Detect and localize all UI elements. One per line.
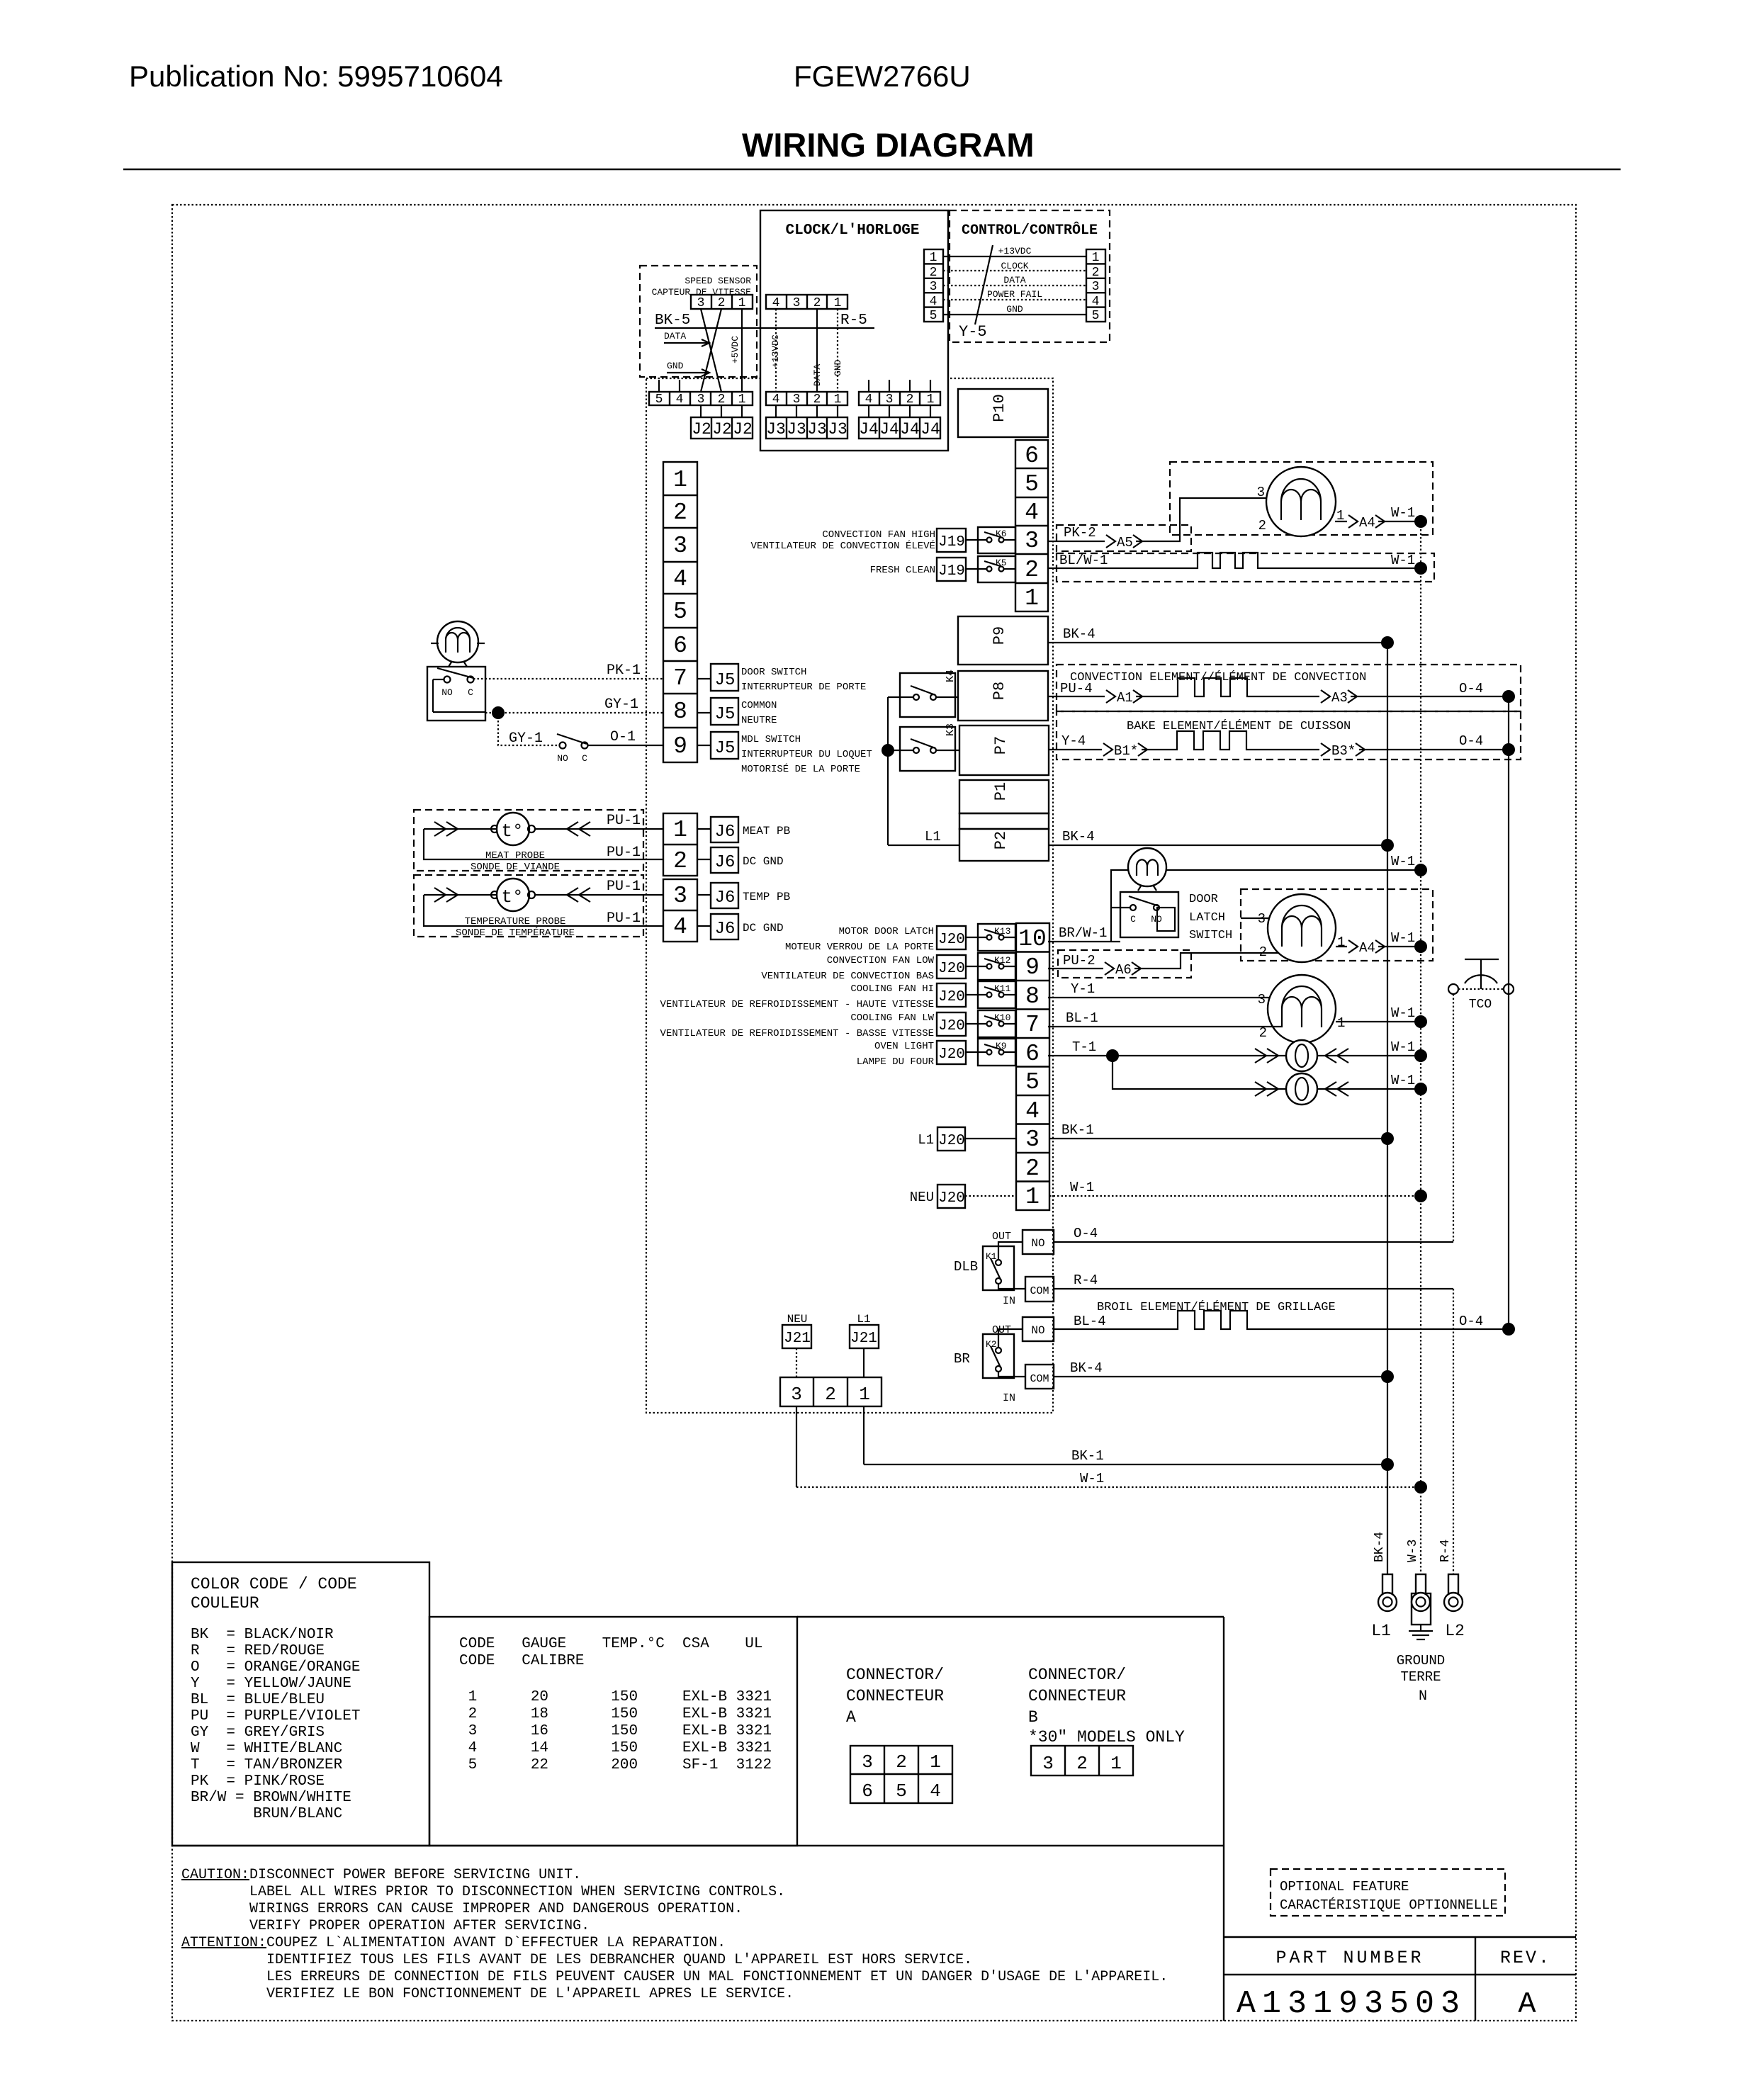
bundle slash Y-5 [975, 245, 993, 324]
label CONNECTOR B [1028, 1666, 1185, 1746]
svg-text:O = ORANGE/ORANGE: O = ORANGE/ORANGE [191, 1659, 360, 1676]
junction O bus broil [1502, 1323, 1515, 1336]
svg-text:7: 7 [673, 665, 687, 691]
svg-text:+5VDC: +5VDC [730, 336, 740, 363]
wire cooling fan pin1 to W bus [1336, 1021, 1421, 1022]
svg-text:K3: K3 [945, 723, 957, 736]
right pin column 6-1 [1015, 440, 1048, 611]
svg-text:CODE GAUGE TEMP.°C CSA: CODE GAUGE TEMP.°C CSA UL [459, 1636, 762, 1652]
svg-text:PU-1: PU-1 [607, 845, 641, 861]
svg-text:J3: J3 [828, 420, 847, 439]
svg-text:3: 3 [1025, 1127, 1040, 1153]
svg-text:PU-2: PU-2 [1063, 953, 1096, 969]
svg-text:BK-1: BK-1 [1071, 1448, 1104, 1464]
svg-text:2: 2 [673, 499, 687, 526]
motor cooling fan [1258, 975, 1346, 1043]
svg-text:3: 3 [697, 393, 705, 407]
junction BK bus BK-1 [1381, 1132, 1394, 1145]
J2 connector boxes [691, 405, 753, 439]
svg-text:L2: L2 [1445, 1622, 1465, 1640]
svg-text:COOLING FAN LW: COOLING FAN LW [850, 1012, 934, 1024]
svg-text:2: 2 [1259, 944, 1267, 960]
wire speed sensor cross 2 [701, 309, 721, 392]
svg-text:IDENTIFIEZ TOUS LES FILS AVANT: IDENTIFIEZ TOUS LES FILS AVANT DE LES DE… [266, 1952, 972, 1968]
svg-text:4: 4 [772, 296, 780, 310]
svg-text:BK-4: BK-4 [1062, 829, 1095, 845]
svg-text:L1: L1 [857, 1313, 870, 1326]
connector strip J2 row [649, 392, 753, 407]
svg-text:COM: COM [1030, 1285, 1049, 1297]
svg-text:4: 4 [676, 393, 684, 407]
svg-text:J20: J20 [938, 1190, 965, 1207]
J21 box L1 [850, 1325, 879, 1377]
wire DATA [943, 285, 1086, 286]
P1-P2 spacer [959, 813, 1049, 829]
svg-text:WIRING DIAGRAM: WIRING DIAGRAM [742, 126, 1035, 164]
svg-text:+13VDC: +13VDC [998, 246, 1032, 256]
junction W bus door latch [1414, 864, 1427, 876]
svg-text:1: 1 [1110, 1753, 1122, 1774]
svg-text:4: 4 [1025, 1098, 1040, 1124]
svg-text:3: 3 [793, 296, 801, 310]
svg-text:SPEED SENSOR: SPEED SENSOR [685, 276, 751, 286]
svg-text:LES ERREURS DE CONNECTION DE F: LES ERREURS DE CONNECTION DE FILS PEUVEN… [266, 1969, 1168, 1985]
wire speed sensor straight [741, 309, 743, 392]
NO box BR [1023, 1317, 1054, 1341]
svg-text:J2: J2 [733, 420, 753, 439]
svg-text:3: 3 [1092, 280, 1100, 294]
svg-text:1: 1 [930, 1751, 941, 1773]
svg-text:BL = BLUE/BLEU: BL = BLUE/BLEU [191, 1692, 325, 1708]
svg-text:3: 3 [673, 883, 687, 909]
svg-text:1: 1 [1025, 1184, 1040, 1210]
svg-text:1: 1 [834, 393, 842, 407]
svg-text:N: N [1419, 1688, 1427, 1705]
svg-text:3: 3 [1025, 528, 1039, 554]
J6 box pin4 [697, 914, 738, 939]
svg-text:NO: NO [1031, 1237, 1044, 1250]
svg-text:A: A [846, 1708, 856, 1727]
label CONNECTOR A [846, 1666, 944, 1727]
dashed enclosure PK-2 [1057, 525, 1191, 551]
svg-text:BK = BLACK/NOIR: BK = BLACK/NOIR [191, 1627, 334, 1643]
svg-text:1: 1 [927, 393, 935, 407]
svg-text:BK-1: BK-1 [1061, 1122, 1094, 1138]
control box [950, 210, 1110, 342]
svg-text:OUT: OUT [992, 1231, 1011, 1243]
svg-text:1: 1 [1025, 585, 1039, 611]
J19 box K6 [937, 529, 987, 552]
svg-text:VERIFIEZ LE BON FONCTIONNEMENT: VERIFIEZ LE BON FONCTIONNEMENT DE L'APPA… [266, 1986, 794, 2002]
svg-text:+13VDC: +13VDC [770, 334, 781, 368]
COM box BR [1025, 1365, 1054, 1389]
svg-text:W-1: W-1 [1080, 1471, 1104, 1486]
svg-text:SWITCH: SWITCH [1189, 929, 1232, 942]
svg-text:J6: J6 [715, 920, 736, 939]
title rule [123, 169, 1621, 170]
P9 connector [958, 616, 1048, 665]
relay K12 [978, 953, 1016, 980]
svg-text:IN: IN [1003, 1295, 1015, 1307]
svg-text:W-1: W-1 [1391, 854, 1415, 869]
dashed enclosure convection fan low [1241, 889, 1433, 961]
P7 connector [959, 726, 1049, 775]
svg-text:MEAT PB: MEAT PB [743, 825, 790, 837]
svg-text:2: 2 [1259, 1025, 1267, 1041]
caution area top line [172, 1845, 1224, 1846]
svg-text:A4: A4 [1359, 515, 1375, 531]
wire A4 low pin3 stub [1241, 918, 1270, 919]
svg-text:J2: J2 [692, 420, 711, 439]
svg-text:2: 2 [718, 296, 726, 310]
svg-text:CONNECTOR/: CONNECTOR/ [1028, 1666, 1126, 1684]
svg-text:4: 4 [1025, 499, 1039, 526]
junction O bus convection [1502, 690, 1515, 703]
svg-text:W-1: W-1 [1391, 1073, 1415, 1088]
svg-text:DATA: DATA [812, 364, 823, 386]
svg-text:5 22 200 SF-1: 5 22 200 SF-1 3122 [459, 1757, 772, 1773]
svg-text:1: 1 [1337, 935, 1345, 950]
svg-text:CARACTÉRISTIQUE OPTIONNELLE: CARACTÉRISTIQUE OPTIONNELLE [1280, 1897, 1498, 1913]
svg-text:4: 4 [930, 1780, 941, 1802]
svg-text:J3: J3 [766, 420, 786, 439]
svg-text:2 18 150 EXL-B: 2 18 150 EXL-B 3321 [459, 1706, 772, 1722]
svg-text:CONVECTION FAN HIGH: CONVECTION FAN HIGH [822, 529, 935, 541]
relay K5 [978, 556, 1015, 582]
wire clock GND [837, 309, 838, 392]
wire gauge table box [429, 1617, 797, 1846]
svg-text:PU-1: PU-1 [607, 879, 641, 895]
wire O-4 DLB NO [1054, 1241, 1453, 1243]
svg-text:TEMP PB: TEMP PB [743, 891, 790, 903]
svg-text:REV.: REV. [1500, 1948, 1551, 1968]
wire BK-4 BR COM [1054, 1376, 1387, 1377]
P2 connector [959, 829, 1049, 861]
svg-text:BL-4: BL-4 [1074, 1314, 1106, 1329]
svg-text:2: 2 [1258, 518, 1266, 534]
svg-text:J2: J2 [712, 420, 732, 439]
svg-text:TERRE: TERRE [1400, 1669, 1441, 1685]
svg-text:7: 7 [1025, 1012, 1040, 1038]
bus R-4 upper segment [1453, 994, 1454, 1242]
relay K4 [888, 670, 958, 717]
svg-text:COULEUR: COULEUR [191, 1594, 259, 1613]
svg-text:DOOR SWITCH: DOOR SWITCH [741, 667, 806, 678]
wire W-1 pin1 row [1049, 1195, 1421, 1197]
svg-text:8: 8 [673, 699, 687, 725]
svg-text:3: 3 [673, 533, 687, 559]
control right pin column [1086, 249, 1105, 323]
junction T-1 [1106, 1049, 1119, 1062]
svg-text:GND: GND [1006, 304, 1023, 315]
svg-text:FRESH CLEAN: FRESH CLEAN [870, 565, 935, 576]
junction W bus A4 low [1414, 940, 1427, 953]
wire lamp2 row [1113, 1056, 1421, 1089]
svg-text:P1: P1 [992, 782, 1010, 801]
svg-text:2: 2 [813, 296, 821, 310]
svg-text:GND: GND [667, 361, 684, 371]
svg-text:NEU: NEU [910, 1190, 934, 1205]
svg-text:J20: J20 [938, 1046, 965, 1063]
svg-text:O-1: O-1 [610, 729, 636, 745]
svg-text:VENTILATEUR DE REFROIDISSEMENT: VENTILATEUR DE REFROIDISSEMENT - BASSE V… [660, 1028, 934, 1039]
P10 connector box [958, 389, 1048, 437]
junction W bus BL/W-1 [1414, 562, 1427, 575]
svg-text:6: 6 [673, 633, 687, 659]
wire PK-1 door switch to pin7 [473, 678, 663, 679]
svg-text:PU = PURPLE/VIOLET: PU = PURPLE/VIOLET [191, 1708, 360, 1724]
arrow A5 [1105, 533, 1142, 551]
svg-text:NEU: NEU [787, 1313, 808, 1326]
svg-text:BL/W-1: BL/W-1 [1059, 553, 1108, 568]
svg-text:T = TAN/BRONZER: T = TAN/BRONZER [191, 1757, 343, 1773]
J20 box NEU [937, 1185, 1016, 1208]
svg-text:4 14 150 EXL-B: 4 14 150 EXL-B 3321 [459, 1740, 772, 1756]
P1 connector [959, 780, 1049, 813]
svg-text:6: 6 [1025, 443, 1039, 469]
svg-text:6: 6 [862, 1780, 873, 1802]
svg-text:5: 5 [673, 599, 687, 625]
svg-text:NO: NO [441, 687, 453, 698]
J3 connector boxes [766, 405, 847, 439]
J6 box pin3 [697, 883, 738, 908]
svg-text:DC GND: DC GND [743, 922, 784, 935]
svg-text:PU-1: PU-1 [607, 910, 641, 927]
svg-text:2: 2 [930, 266, 937, 280]
junction W bus A4 top [1414, 515, 1427, 528]
svg-text:C: C [1130, 914, 1136, 925]
svg-text:SONDE DE VIANDE: SONDE DE VIANDE [471, 862, 560, 873]
junction GY-1 [492, 706, 505, 719]
svg-text:COLOR CODE / CODE: COLOR CODE / CODE [191, 1575, 357, 1593]
svg-text:VENTILATEUR DE REFROIDISSEMENT: VENTILATEUR DE REFROIDISSEMENT - HAUTE V… [660, 999, 934, 1010]
svg-text:CLOCK: CLOCK [1001, 261, 1028, 271]
svg-text:DATA: DATA [1003, 275, 1025, 286]
svg-text:J4: J4 [900, 420, 920, 439]
wire O-1 to pin9 [588, 745, 663, 746]
wire Y-1 row [1048, 997, 1275, 998]
svg-text:J3: J3 [807, 420, 827, 439]
svg-text:R = RED/ROUGE: R = RED/ROUGE [191, 1643, 325, 1659]
svg-text:4: 4 [772, 393, 780, 407]
svg-text:O-4: O-4 [1074, 1226, 1098, 1241]
svg-text:BK-4: BK-4 [1373, 1532, 1387, 1562]
meat probe circuit [424, 813, 663, 859]
svg-text:PU-4: PU-4 [1060, 681, 1093, 696]
wire motor A4 top pin1 to W bus [1335, 521, 1421, 522]
J5 box pin7 [697, 664, 738, 691]
relay K2 [983, 1329, 1025, 1378]
svg-text:5: 5 [1025, 1069, 1040, 1095]
dashed enclosure convection fan high motor [1170, 462, 1433, 535]
wire junction down [498, 713, 559, 745]
svg-text:O-4: O-4 [1459, 733, 1483, 749]
svg-text:J5: J5 [715, 705, 736, 724]
arrow A1 [1105, 688, 1142, 706]
svg-text:A13193503: A13193503 [1237, 1986, 1466, 2022]
temperature probe box [414, 875, 643, 939]
lower right pin column 10-1 [1016, 923, 1049, 1210]
svg-text:3: 3 [930, 280, 937, 294]
svg-text:CONVECTION FAN LOW: CONVECTION FAN LOW [827, 955, 935, 966]
svg-text:COOLING FAN HI: COOLING FAN HI [850, 983, 934, 995]
svg-text:P9: P9 [991, 626, 1008, 645]
svg-text:T-1: T-1 [1072, 1039, 1096, 1055]
svg-text:W-1: W-1 [1391, 930, 1415, 946]
svg-text:1: 1 [673, 817, 687, 843]
svg-text:4: 4 [1092, 295, 1100, 309]
terminal R-4 [1444, 1574, 1463, 1611]
svg-text:CLOCK/L'HORLOGE: CLOCK/L'HORLOGE [785, 222, 919, 239]
svg-text:5: 5 [1025, 471, 1039, 497]
speed sensor box [640, 266, 757, 377]
svg-text:NEUTRE: NEUTRE [741, 715, 777, 726]
svg-text:DATA: DATA [664, 331, 686, 341]
J6 box pin2 [697, 847, 738, 873]
connector B strip [1031, 1746, 1133, 1776]
svg-text:FGEW2766U: FGEW2766U [794, 60, 971, 93]
svg-text:1: 1 [834, 296, 842, 310]
clock box [760, 210, 948, 451]
door latch switch box right [1111, 892, 1178, 937]
J20 box K10 [937, 1012, 987, 1036]
clock pin strip 4321 [766, 295, 847, 310]
svg-text:2: 2 [1025, 557, 1039, 583]
relay K9 [978, 1039, 1016, 1066]
junction W bus cooling [1414, 1015, 1427, 1028]
J20 box K13 [937, 926, 987, 949]
svg-text:9: 9 [673, 733, 687, 760]
svg-text:INTERRUPTEUR DE PORTE: INTERRUPTEUR DE PORTE [741, 682, 866, 693]
svg-text:WIRINGS ERRORS CAN CAUSE IMPRO: WIRINGS ERRORS CAN CAUSE IMPROPER AND DA… [249, 1901, 743, 1917]
wire BL/W-1 row with element [1048, 553, 1421, 568]
svg-text:10: 10 [1018, 926, 1047, 952]
svg-text:B1*: B1* [1114, 743, 1138, 759]
wire stubs J4 to board edge [868, 380, 869, 392]
wire BK-1 bottom [864, 1464, 1387, 1465]
svg-text:LABEL ALL WIRES PRIOR TO DISCO: LABEL ALL WIRES PRIOR TO DISCONNECTION W… [249, 1884, 785, 1900]
svg-text:BK-4: BK-4 [1063, 626, 1096, 642]
arrow A3 [1319, 688, 1357, 706]
svg-text:5: 5 [896, 1780, 907, 1802]
svg-text:DLB: DLB [954, 1259, 978, 1275]
dashed enclosure bake element [1057, 711, 1521, 760]
svg-text:INTERRUPTEUR DU LOQUET: INTERRUPTEUR DU LOQUET [741, 749, 872, 760]
svg-text:A3: A3 [1331, 690, 1348, 706]
svg-text:DC GND: DC GND [743, 855, 784, 868]
wire K4 K3 vertical [887, 697, 889, 845]
svg-text:LATCH: LATCH [1189, 911, 1225, 925]
wire BK-1 pin3 row [1049, 1138, 1387, 1139]
door switch box [427, 667, 485, 721]
svg-text:3: 3 [793, 393, 801, 407]
svg-text:COM: COM [1030, 1373, 1049, 1385]
svg-text:C: C [582, 753, 587, 764]
svg-text:GROUND: GROUND [1397, 1653, 1445, 1669]
svg-text:SONDE DE TEMPÉRATURE: SONDE DE TEMPÉRATURE [456, 926, 575, 939]
svg-text:J6: J6 [715, 823, 736, 842]
wire PU-2 row [1048, 953, 1284, 969]
svg-text:5: 5 [930, 309, 937, 323]
svg-text:8: 8 [1025, 983, 1040, 1010]
connector area partition top [797, 1616, 1224, 1618]
svg-text:LAMPE DU FOUR: LAMPE DU FOUR [857, 1056, 935, 1068]
svg-text:2: 2 [1025, 1156, 1040, 1182]
svg-text:3: 3 [862, 1751, 873, 1773]
svg-text:1: 1 [1092, 251, 1100, 265]
terminal W-3 ground [1409, 1574, 1433, 1639]
wire clock +13VDC [775, 309, 777, 392]
wire bake element row [1048, 731, 1509, 750]
svg-text:COMMON: COMMON [741, 700, 777, 711]
svg-text:J21: J21 [850, 1331, 877, 1347]
svg-text:GY-1: GY-1 [604, 696, 638, 713]
junction O bus bake [1502, 743, 1515, 756]
svg-text:J4: J4 [859, 420, 879, 439]
svg-text:2: 2 [896, 1751, 907, 1773]
svg-text:4: 4 [673, 566, 687, 592]
svg-text:BK-5: BK-5 [655, 312, 690, 329]
part number table [1224, 1937, 1576, 2022]
wire J21 pin1 down [863, 1406, 864, 1464]
svg-text:2: 2 [718, 393, 726, 407]
svg-text:W-1: W-1 [1391, 1005, 1415, 1021]
junction W bus lamp2 [1414, 1083, 1427, 1095]
color code box [172, 1562, 429, 1846]
svg-text:DOOR: DOOR [1189, 893, 1218, 906]
dashed enclosure BL W-1 [1057, 553, 1434, 582]
svg-text:J19: J19 [938, 534, 965, 551]
svg-text:PK-1: PK-1 [607, 662, 641, 679]
svg-text:PU-1: PU-1 [607, 813, 641, 829]
COM box DLB [1025, 1277, 1054, 1302]
svg-text:2: 2 [906, 393, 914, 407]
svg-text:2: 2 [1076, 1753, 1088, 1774]
bundle line BK-5 R-5 [655, 327, 874, 329]
J5 box pin8 [697, 698, 738, 725]
connector strip J3 row [766, 392, 847, 407]
svg-text:J19: J19 [938, 563, 965, 580]
svg-text:4: 4 [930, 295, 937, 309]
wire BK-4 P2 row [1049, 845, 1387, 846]
svg-text:Y-4: Y-4 [1061, 733, 1086, 749]
main board box [646, 378, 1053, 1413]
wire L1 to P2 [888, 845, 959, 846]
svg-text:C: C [468, 687, 473, 698]
MDL switch contacts [557, 734, 588, 764]
svg-text:BL-1: BL-1 [1066, 1010, 1098, 1026]
svg-text:2: 2 [813, 393, 821, 407]
wire motor A4 low pin1 to W bus [1336, 946, 1421, 947]
arrow A4 top [1347, 513, 1385, 531]
J20 box K11 [937, 983, 987, 1007]
svg-text:VERIFY PROPER OPERATION AFTER: VERIFY PROPER OPERATION AFTER SERVICING. [249, 1918, 590, 1934]
svg-text:4: 4 [865, 393, 873, 407]
wire speed sensor cross 1 [701, 309, 721, 392]
svg-text:2: 2 [825, 1384, 836, 1405]
wire BK-4 top row [1048, 642, 1387, 643]
connector strip J4 row [859, 392, 940, 407]
svg-text:L1: L1 [1371, 1622, 1391, 1640]
wire CLOCK [943, 270, 1086, 271]
wire BL-1 row [1048, 1026, 1283, 1027]
svg-text:NO: NO [557, 753, 568, 764]
wire PK-2 row [1048, 498, 1283, 541]
relay K1 [983, 1242, 1025, 1290]
wire POWER FAIL [943, 299, 1086, 300]
J6 pin cells 3-4 [663, 879, 697, 942]
svg-text:1: 1 [738, 393, 746, 407]
